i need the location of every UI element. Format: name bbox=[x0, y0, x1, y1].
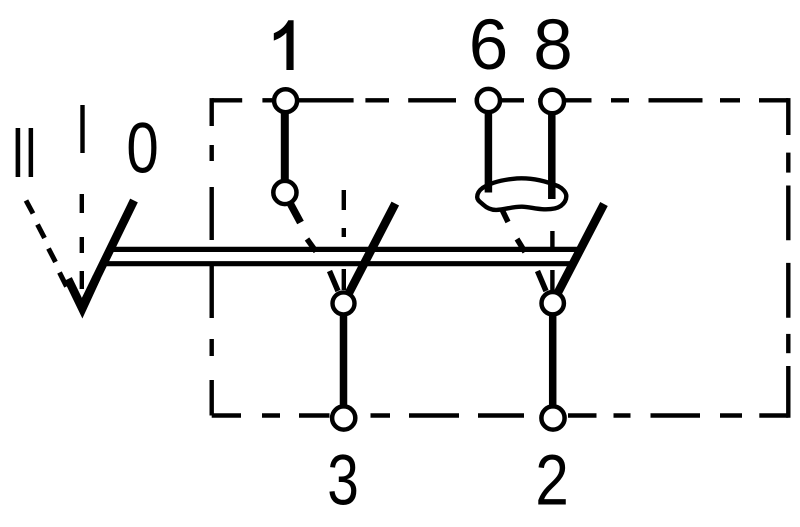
svg-text:6: 6 bbox=[469, 6, 509, 85]
svg-text:0: 0 bbox=[126, 108, 158, 188]
svg-text:8: 8 bbox=[533, 6, 573, 85]
svg-text:3: 3 bbox=[327, 440, 359, 520]
svg-text:2: 2 bbox=[535, 440, 569, 520]
